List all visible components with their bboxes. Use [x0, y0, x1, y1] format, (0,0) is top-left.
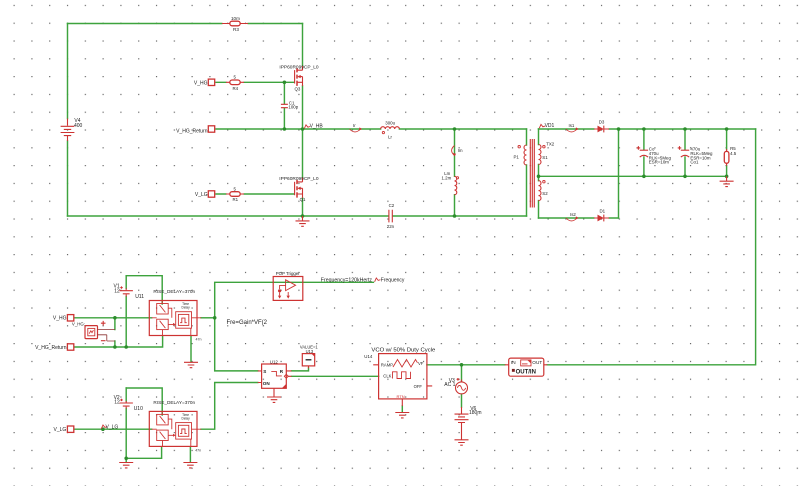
svg-text:U10: U10 — [134, 406, 143, 412]
svg-text:Is2: Is2 — [570, 212, 576, 217]
svg-text:RISE_DELAY=370n: RISE_DELAY=370n — [153, 289, 195, 294]
svg-text:AC 1: AC 1 — [444, 382, 455, 388]
svg-text:Fre=Gain*VF(2: Fre=Gain*VF(2 — [227, 320, 268, 326]
svg-text:OFF: OFF — [414, 384, 423, 389]
svg-text:Frequency=120kHertz: Frequency=120kHertz — [321, 278, 373, 284]
svg-text:Co1: Co1 — [690, 159, 699, 164]
svg-text:VD1: VD1 — [545, 123, 555, 129]
svg-text:OUT/IN: OUT/IN — [516, 370, 536, 376]
svg-text:Q1: Q1 — [300, 197, 306, 202]
svg-text:V_HB: V_HB — [310, 124, 324, 130]
svg-text:400: 400 — [74, 123, 83, 129]
svg-text:V_LG: V_LG — [106, 424, 119, 430]
svg-text:U12: U12 — [270, 359, 279, 364]
svg-text:U14: U14 — [364, 354, 373, 359]
svg-text:IN: IN — [511, 360, 516, 365]
svg-text:V_HG: V_HG — [53, 316, 67, 322]
svg-text:VF: VF — [418, 361, 424, 366]
svg-text:Q3: Q3 — [295, 86, 301, 91]
svg-text:Im: Im — [458, 148, 463, 153]
svg-text:12: 12 — [114, 288, 120, 294]
svg-text:300u: 300u — [385, 121, 395, 126]
svg-text:Delay: Delay — [182, 305, 191, 309]
svg-text:V_HG:: V_HG: — [72, 321, 85, 326]
svg-text:4.5: 4.5 — [730, 151, 737, 156]
svg-text:V_HG_Return: V_HG_Return — [176, 128, 208, 134]
svg-text:D3: D3 — [599, 120, 605, 125]
svg-text:C2: C2 — [389, 203, 395, 208]
svg-text:D1: D1 — [600, 209, 606, 214]
svg-text:Is1: Is1 — [569, 123, 575, 128]
svg-text:R1: R1 — [233, 197, 239, 202]
svg-text:S1: S1 — [542, 155, 548, 160]
svg-text:V_HG_Return: V_HG_Return — [35, 345, 67, 351]
svg-text:CLK: CLK — [383, 374, 391, 379]
svg-text:VCO w/ 50% Duty Cycle: VCO w/ 50% Duty Cycle — [371, 347, 436, 353]
svg-text:IPP60R099CP_L0: IPP60R099CP_L0 — [279, 64, 319, 70]
svg-text:Delay: Delay — [182, 416, 191, 420]
svg-text:47n: 47n — [196, 337, 202, 341]
svg-text:RAMP: RAMP — [381, 362, 393, 367]
svg-text:TX2: TX2 — [546, 141, 555, 146]
svg-text:V_LG: V_LG — [195, 192, 208, 198]
svg-text:S2: S2 — [542, 191, 548, 196]
svg-text:ON: ON — [263, 381, 271, 386]
svg-text:Frequency: Frequency — [381, 278, 405, 284]
svg-text:180m: 180m — [469, 410, 482, 416]
svg-text:47n: 47n — [195, 449, 201, 453]
svg-text:R3: R3 — [233, 27, 239, 32]
svg-text:U13: U13 — [306, 349, 314, 354]
svg-text:V_HG: V_HG — [194, 80, 208, 86]
svg-text:P1: P1 — [514, 155, 520, 160]
svg-text:RISE_DELAY=370n: RISE_DELAY=370n — [153, 400, 195, 405]
svg-text:R4: R4 — [233, 86, 239, 91]
svg-text:V_LG: V_LG — [54, 427, 67, 433]
svg-text:Lr: Lr — [388, 135, 392, 140]
svg-text:100p: 100p — [288, 104, 298, 109]
svg-text:U11: U11 — [135, 294, 144, 300]
svg-text:10m: 10m — [231, 16, 240, 21]
svg-text:22n: 22n — [387, 224, 395, 229]
svg-text:S: S — [263, 369, 266, 374]
svg-text:OUT: OUT — [532, 360, 542, 365]
svg-text:POP Trigger: POP Trigger — [276, 271, 301, 276]
svg-text:12: 12 — [114, 400, 120, 406]
svg-text:IPP60R099CP_L0: IPP60R099CP_L0 — [279, 176, 319, 182]
svg-text:1.2m: 1.2m — [442, 176, 452, 181]
svg-text:RTN: RTN — [397, 394, 405, 399]
svg-text:ESR=10m: ESR=10m — [649, 159, 669, 164]
